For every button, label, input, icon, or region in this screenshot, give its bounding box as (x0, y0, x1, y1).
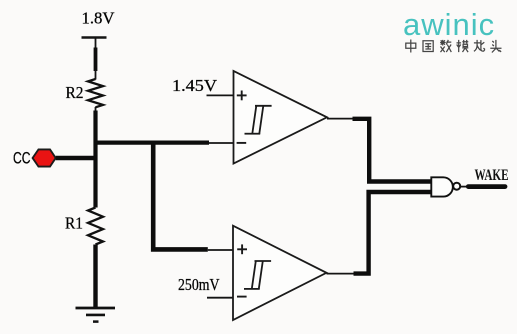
svg-text:250mV: 250mV (178, 275, 220, 294)
resistor R2 (88, 79, 103, 107)
wire 1.45V to comparator plus input (207, 94, 235, 96)
comparator U2 (bottom) (233, 226, 327, 320)
svg-text:WAKE: WAKE (475, 167, 509, 184)
char 中 (406, 40, 416, 53)
wire U1 output to NAND input A (327, 119, 432, 182)
wire branch to lower comparator plus input (153, 141, 234, 250)
char 数 (440, 40, 451, 52)
power rail 1.8V bar (82, 36, 107, 39)
wire power rail to R2 (95, 38, 97, 80)
wire CC to divider node (56, 156, 98, 161)
char 头 (490, 40, 501, 53)
svg-text:awinic: awinic (403, 7, 495, 42)
svg-text:CC: CC (13, 150, 31, 168)
svg-text:R2: R2 (66, 83, 84, 102)
resistor R1 (88, 208, 103, 245)
wire 250mV to comparator minus input (207, 297, 234, 299)
char 国 (423, 41, 433, 52)
NAND gate U3 (431, 177, 460, 196)
svg-text:1.45V: 1.45V (172, 76, 218, 95)
svg-text:1.8V: 1.8V (82, 9, 116, 28)
wire NAND output WAKE (460, 186, 505, 188)
awinic logo chinese tagline (406, 40, 502, 53)
ground (76, 308, 116, 322)
svg-text:R1: R1 (65, 214, 83, 233)
wire R2 to node (95, 107, 97, 208)
comparator U1 (top) (234, 71, 328, 164)
char 模 (457, 40, 469, 52)
hysteresis symbol U1 (245, 106, 272, 134)
wire R1 to ground (93, 245, 97, 308)
wire divider node to comparator minus input (94, 141, 235, 146)
wire U2 output to NAND input B (327, 192, 432, 274)
node CC port hexagon (33, 149, 56, 166)
hysteresis symbol U2 (244, 261, 271, 289)
char 龙 (474, 40, 485, 51)
